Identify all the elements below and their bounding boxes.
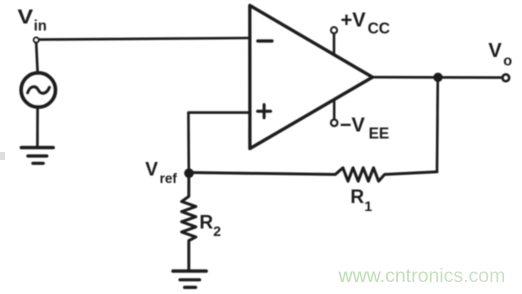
svg-text:in: in — [34, 18, 47, 34]
svg-text:o: o — [503, 54, 512, 70]
svg-text:V: V — [18, 6, 34, 28]
svg-text:V: V — [145, 159, 158, 180]
svg-text:V: V — [488, 40, 502, 62]
svg-text:ref: ref — [160, 171, 178, 186]
svg-text:+V: +V — [341, 10, 367, 32]
svg-text:EE: EE — [369, 126, 390, 143]
svg-text:CC: CC — [368, 21, 390, 38]
svg-text:1: 1 — [364, 198, 372, 214]
svg-text:2: 2 — [213, 223, 221, 239]
svg-text:R: R — [350, 187, 364, 208]
svg-text:−V: −V — [340, 114, 366, 136]
svg-text:R: R — [199, 213, 213, 234]
svg-text:www.cntronics.com: www.cntronics.com — [338, 265, 506, 287]
